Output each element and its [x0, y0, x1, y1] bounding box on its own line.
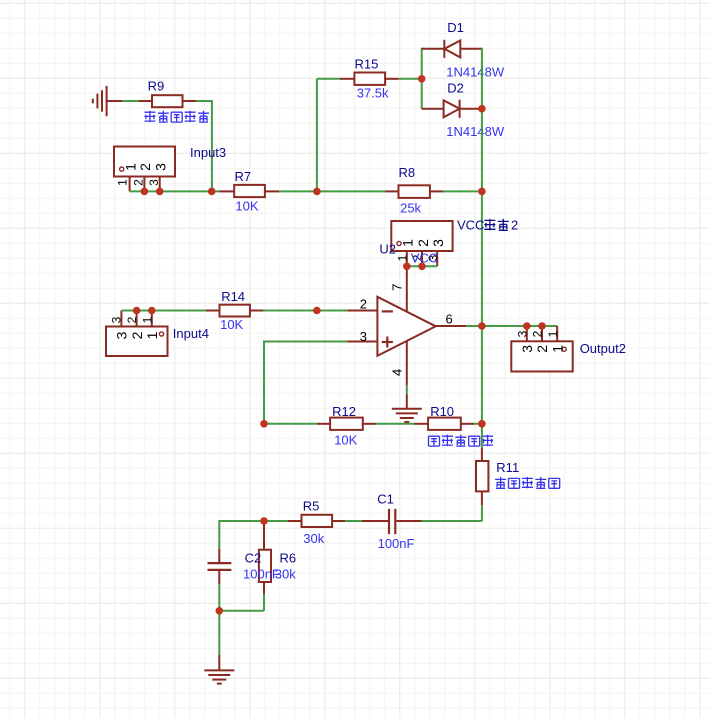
resistor R7 [219, 190, 234, 192]
svg-text:100nF: 100nF [378, 536, 415, 551]
svg-text:2: 2 [125, 316, 139, 323]
connector Input3 [114, 147, 175, 177]
wire (R8 to main vertical) [443, 190, 482, 192]
svg-text:1N4148W: 1N4148W [446, 124, 505, 139]
svg-text:1: 1 [115, 179, 129, 186]
svg-text:7: 7 [389, 284, 404, 291]
ground (left of R9) [106, 86, 108, 116]
svg-text:R5: R5 [303, 499, 320, 514]
capacitor C1 100nF [362, 520, 388, 522]
op-amp pin 4 lead [406, 341, 408, 385]
svg-text:D2: D2 [447, 81, 464, 96]
svg-text:1: 1 [140, 316, 154, 323]
wire (op-amp pin3 to bend) [264, 341, 348, 343]
diode D1 1N4148W [422, 48, 445, 50]
svg-text:3: 3 [147, 179, 161, 186]
junction (R6 branch) [260, 517, 268, 525]
svg-text:Output2: Output2 [580, 341, 626, 356]
op-amp minus sign [382, 310, 393, 312]
resistor R12 [317, 423, 330, 425]
svg-text:3: 3 [515, 330, 529, 337]
resistor R10 [415, 423, 429, 425]
junction (output/main vertical) [478, 322, 486, 330]
svg-text:2: 2 [129, 331, 145, 339]
svg-text:1: 1 [122, 163, 138, 171]
ground (bottom) [218, 655, 220, 670]
connector VCC输入2 [391, 221, 452, 251]
svg-text:2: 2 [131, 179, 145, 186]
svg-text:3: 3 [519, 345, 535, 353]
svg-text:10K: 10K [334, 432, 357, 447]
ground (op-amp pin 4) [392, 408, 422, 410]
junction (R8/main vertical) [478, 188, 486, 196]
svg-text:R6: R6 [280, 551, 297, 566]
junction (Input3 pin2) [141, 188, 149, 196]
svg-text:1N4148W: 1N4148W [446, 65, 505, 80]
svg-text:2: 2 [534, 345, 550, 353]
wire (R9 to node, bends down) [196, 100, 212, 102]
wire (R14 to op-amp) [263, 310, 347, 312]
junction (C2/R6 bottom) [216, 607, 224, 615]
wire (down to ground) [218, 611, 220, 655]
svg-text:3: 3 [153, 163, 169, 171]
svg-text:C2: C2 [245, 551, 262, 566]
wire (R15 to diodes) [399, 78, 422, 80]
svg-text:Input3: Input3 [190, 145, 226, 160]
svg-text:25k: 25k [400, 200, 421, 215]
connector Input4 [106, 327, 168, 357]
junction (R15 branch) [313, 188, 321, 196]
capacitor C2 100nF [218, 549, 220, 562]
svg-text:Input4: Input4 [173, 326, 209, 341]
op-amp U2 [377, 297, 435, 356]
wire (R7 to R8) [279, 190, 385, 192]
junction (Input3 pin3) [156, 188, 164, 196]
wire (vertical feedback) [263, 341, 265, 424]
svg-text:2: 2 [137, 163, 153, 171]
svg-text:30k: 30k [303, 531, 324, 546]
junction (D2/main vertical) [478, 105, 486, 113]
svg-text:VCC: VCC [411, 251, 438, 266]
svg-text:1: 1 [395, 254, 409, 261]
junction (R10/main vertical) [478, 420, 486, 428]
op-amp pin 3 lead [348, 341, 378, 343]
resistor R5 [288, 520, 302, 522]
wire (left of R5) [219, 520, 288, 522]
wire (node to R15, bend) [316, 79, 318, 192]
svg-text:R10: R10 [430, 404, 454, 419]
svg-text:U2: U2 [379, 242, 396, 257]
svg-text:4: 4 [389, 369, 404, 376]
svg-text:1: 1 [546, 330, 560, 337]
connector Output2 [511, 341, 572, 371]
junction (VCC pin2) [418, 263, 426, 271]
wire (R5 to C1) [345, 520, 362, 522]
op-amp pin 2 lead [347, 310, 377, 312]
op-amp pin 7 lead [406, 266, 408, 311]
wire (R11 to C1 row) [481, 505, 483, 521]
value label 加法器电路 (R10) [429, 436, 440, 446]
svg-text:R12: R12 [332, 404, 356, 419]
svg-text:10K: 10K [235, 199, 258, 214]
wire (Input3 row) [130, 190, 220, 192]
wire (VCC net) [407, 265, 437, 267]
wire (diode left vertical) [421, 48, 423, 109]
junction (R9 branch) [208, 188, 216, 196]
resistor R14 [206, 310, 220, 312]
svg-text:R8: R8 [399, 165, 416, 180]
junction (Input4 pin1) [148, 307, 156, 315]
wire (R10 to main vertical) [474, 423, 482, 425]
junction (feedback/R12 row) [260, 420, 268, 428]
wire (ground to R9) [107, 100, 122, 102]
svg-text:1: 1 [400, 239, 416, 247]
svg-text:100nF: 100nF [243, 567, 280, 582]
svg-text:R14: R14 [221, 289, 245, 304]
svg-text:1: 1 [549, 345, 565, 353]
wire (main right vertical) [481, 48, 483, 424]
svg-text:R9: R9 [148, 78, 165, 93]
resistor R11 [481, 448, 483, 461]
wire (op-amp output) [466, 325, 557, 327]
svg-text:3: 3 [109, 316, 123, 323]
svg-text:VCC: VCC [457, 218, 484, 233]
svg-text:2: 2 [531, 330, 545, 337]
svg-text:R15: R15 [355, 57, 379, 72]
svg-text:D1: D1 [447, 20, 464, 35]
svg-text:3: 3 [360, 329, 367, 344]
wire (C2 bottom) [218, 584, 220, 611]
svg-text:2: 2 [511, 218, 518, 233]
value label 文氏桥电路 (R11) [495, 477, 506, 488]
junction (Output2 pin2) [538, 322, 546, 330]
svg-text:R11: R11 [496, 460, 519, 475]
junction (R14 row / vertical) [313, 307, 321, 315]
svg-text:6: 6 [446, 311, 453, 326]
junction (VCC pin1) [403, 263, 411, 271]
resistor R6 [263, 521, 265, 550]
wire (R12 to R10) [376, 423, 415, 425]
svg-text:2: 2 [415, 239, 431, 247]
svg-text:2: 2 [360, 297, 367, 312]
junction (Input4 pin2) [133, 307, 141, 315]
wire (Input4 row) [121, 310, 206, 312]
svg-text:C1: C1 [377, 492, 394, 507]
svg-text:37.5k: 37.5k [357, 86, 389, 101]
svg-text:10K: 10K [220, 317, 243, 332]
wire (C1 row right bend) [481, 520, 483, 521]
wire (down to C2) [218, 520, 220, 549]
wire (to R11) [481, 424, 483, 448]
svg-text:R7: R7 [235, 169, 252, 184]
op-amp pin 6 lead [436, 325, 466, 327]
resistor R8 [386, 190, 399, 192]
op-amp plus sign [382, 341, 393, 343]
svg-text:1: 1 [144, 331, 160, 339]
wire (pin4 to ground) [406, 385, 408, 395]
wire (R12 row left) [264, 423, 317, 425]
resistor R9 [139, 100, 152, 102]
junction (R15/diode branch) [418, 75, 426, 83]
diode D2 1N4148W [422, 108, 445, 110]
wire (R6 bottom bend) [263, 594, 265, 611]
svg-text:3: 3 [114, 331, 130, 339]
resistor R15 [340, 78, 355, 80]
junction (Output2 pin3) [523, 322, 531, 330]
value label 文氏桥电路 (R9) [144, 111, 155, 122]
svg-text:3: 3 [430, 239, 446, 247]
